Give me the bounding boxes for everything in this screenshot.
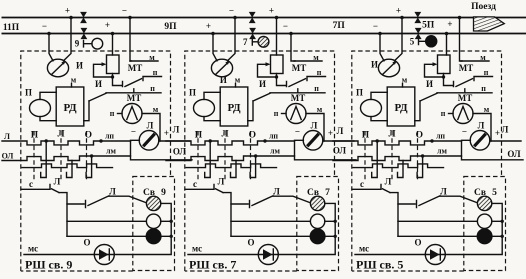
wire м terminal feed — [460, 18, 463, 62]
svg-text:РШ св. 5: РШ св. 5 — [356, 258, 403, 272]
svg-text:ОЛ: ОЛ — [507, 149, 521, 159]
wire resistor feed — [112, 34, 114, 56]
svg-text:7П: 7П — [333, 21, 346, 31]
bus line bottom — [2, 33, 526, 35]
svg-text:+: + — [447, 19, 452, 29]
insulated joint symbol — [81, 28, 88, 39]
svg-text:11П: 11П — [3, 23, 20, 33]
svg-text:−: − — [283, 21, 288, 31]
block taps at dx=164 — [211, 32, 215, 36]
insulated joint symbol — [415, 28, 422, 39]
svg-text:РШ св. 7: РШ св. 7 — [189, 258, 236, 272]
svg-text:5П: 5П — [422, 21, 435, 31]
svg-text:+: + — [206, 21, 211, 31]
svg-text:−: − — [229, 6, 234, 16]
svg-text:РШ св. 9: РШ св. 9 — [25, 258, 72, 272]
svg-text:Поезд: Поезд — [471, 2, 496, 12]
svg-text:7: 7 — [243, 37, 248, 47]
svg-text:И: И — [76, 61, 83, 71]
svg-text:9: 9 — [161, 188, 166, 198]
svg-text:7: 7 — [325, 188, 330, 198]
block 3 РШ св.5 — [333, 18, 523, 272]
block taps at dx=0 — [47, 32, 51, 36]
svg-text:Л: Л — [502, 125, 509, 135]
svg-text:9П: 9П — [164, 22, 177, 32]
svg-text:+: + — [269, 6, 274, 16]
block 1 РШ св.9 — [2, 18, 192, 272]
insulated joint symbol — [249, 12, 256, 23]
block 2 РШ св.7 — [166, 18, 356, 272]
wire resistor feed — [446, 34, 448, 56]
svg-text:И: И — [371, 60, 378, 70]
svg-text:+: + — [65, 6, 70, 16]
svg-text:ОЛ: ОЛ — [173, 147, 187, 157]
bus line top — [2, 17, 526, 19]
svg-text:ОЛ: ОЛ — [2, 152, 14, 161]
svg-text:+: + — [105, 20, 110, 30]
train direction arrow — [474, 17, 505, 31]
wire м terminal feed — [291, 34, 295, 62]
svg-text:5: 5 — [410, 36, 415, 46]
wire resistor feed — [276, 18, 278, 56]
svg-text:5: 5 — [492, 188, 497, 198]
svg-text:ОЛ: ОЛ — [333, 146, 347, 156]
svg-text:+: + — [396, 6, 401, 16]
svg-text:Л: Л — [337, 126, 344, 136]
wire м terminal feed — [130, 18, 131, 62]
insulated joint symbol — [414, 12, 421, 23]
svg-text:−: − — [42, 21, 47, 31]
svg-text:−: − — [373, 21, 378, 31]
svg-text:И: И — [220, 75, 227, 85]
svg-text:−: − — [122, 6, 127, 16]
insulated joint symbol — [249, 28, 256, 39]
svg-text:Л: Л — [4, 132, 10, 141]
svg-text:Л: Л — [173, 125, 180, 135]
svg-text:9: 9 — [75, 39, 80, 49]
block taps at dx=331 — [378, 32, 382, 36]
insulated joint symbol — [80, 12, 87, 23]
